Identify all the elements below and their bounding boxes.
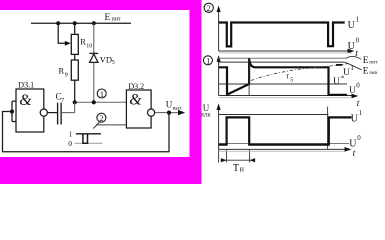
- Tn tick left: [225, 150, 227, 163]
- svg-text:U: U: [203, 103, 210, 113]
- svg-text:E: E: [105, 13, 111, 23]
- svg-text:2: 2: [207, 4, 211, 13]
- magenta frame right strip: [190, 0, 202, 184]
- middle waveform node 1: [219, 58, 347, 95]
- wire R10 to R9: [74, 54, 76, 60]
- middle diagram vertical axis: [218, 59, 220, 96]
- svg-text:2: 2: [99, 114, 103, 123]
- bottom waveform U_blk: [219, 117, 352, 144]
- wire D3.2 output: [155, 112, 179, 114]
- svg-text:1: 1: [350, 64, 354, 72]
- wire R10 wiper branch: [58, 23, 65, 43]
- svg-text:БЛК: БЛК: [201, 114, 211, 119]
- bottom diagram vertical axis: [218, 108, 220, 150]
- svg-text:н: н: [240, 164, 245, 173]
- svg-text:U: U: [343, 68, 350, 78]
- gate D3.1 output bubble: [40, 109, 47, 116]
- E_pit pointer hook: [346, 56, 361, 59]
- Tn arrow left: [221, 158, 227, 162]
- top diagram time axis: [219, 50, 349, 52]
- svg-text:1: 1: [206, 57, 210, 66]
- Tn arrow right: [250, 158, 256, 162]
- svg-text:VD: VD: [100, 55, 112, 65]
- svg-text:5: 5: [290, 78, 293, 84]
- wire trigger input to D3.2: [96, 124, 126, 126]
- svg-text:0: 0: [357, 134, 361, 142]
- node label circled 2: [97, 113, 106, 122]
- output arrowhead: [178, 110, 185, 115]
- U* threshold line: [219, 83, 347, 85]
- U1 reference line (bottom): [219, 114, 329, 116]
- svg-text:E: E: [363, 67, 369, 77]
- junction dot D3.1 input: [10, 109, 14, 113]
- svg-text:&: &: [19, 92, 32, 109]
- E_pit level line: [219, 57, 346, 59]
- U0 reference line (bottom): [219, 143, 349, 145]
- svg-text:t: t: [357, 99, 360, 109]
- diagram label circled 1 (middle): [203, 56, 212, 65]
- svg-text:U: U: [349, 138, 357, 149]
- svg-text:U: U: [349, 86, 356, 96]
- wire D3.1 output to C7: [47, 112, 57, 114]
- trigger waveform 0-level line: [74, 142, 102, 144]
- E_ekv level line: [219, 61, 344, 63]
- junction dot output: [167, 111, 171, 115]
- svg-text:0: 0: [68, 139, 72, 148]
- Tn tick right: [249, 150, 251, 163]
- gate D3.2 body: [126, 90, 151, 128]
- wire C7 to node 1: [61, 102, 75, 112]
- wire input tie: [11, 101, 13, 121]
- diode VD5 cathode bar: [89, 52, 98, 54]
- svg-text:D3.1: D3.1: [18, 81, 34, 90]
- svg-text:U: U: [351, 113, 359, 124]
- E_ekv pointer hook: [344, 62, 362, 70]
- guide line t3 (bottom): [327, 107, 329, 150]
- power rail E_pit: [31, 22, 131, 24]
- svg-text:U: U: [348, 20, 356, 31]
- node label circled 1: [97, 89, 106, 98]
- trigger waveform 1-level line: [76, 133, 101, 135]
- wire R9 to node 1: [74, 80, 76, 102]
- trigger waveform pulse: [83, 134, 88, 143]
- bottom diagram time axis: [219, 148, 346, 150]
- Tn dimension line: [221, 159, 254, 161]
- feedback wire output to D3.1 input: [3, 112, 170, 152]
- guide line t2 (middle): [248, 59, 250, 96]
- svg-text:U: U: [333, 77, 340, 87]
- svg-text:10: 10: [86, 44, 92, 50]
- magenta frame bottom band: [0, 157, 190, 184]
- svg-text:экв: экв: [369, 70, 377, 76]
- magenta frame top band: [0, 0, 202, 10]
- axis shadow lines (scan artifact): [219, 52, 352, 54]
- top diagram vertical axis: [218, 10, 220, 51]
- node dot rail-R10: [73, 21, 77, 25]
- svg-text:U: U: [348, 41, 356, 52]
- diode VD5 triangle: [90, 54, 98, 62]
- svg-text:9: 9: [65, 73, 68, 79]
- node dot rail-R10wiper: [56, 21, 60, 25]
- diagram label circled 2 (top): [204, 3, 213, 12]
- svg-text:E: E: [363, 56, 369, 66]
- axis extension tick below origin: [218, 149, 220, 162]
- svg-text:вых: вых: [173, 106, 182, 112]
- wire VD5 to node 1: [93, 63, 95, 103]
- capacitor C7 plates: [58, 103, 62, 125]
- wiper arrowhead: [65, 41, 71, 46]
- svg-text:1: 1: [69, 129, 73, 138]
- junction dot node1-VD5: [92, 100, 96, 104]
- U1 level dash (middle): [336, 64, 342, 66]
- svg-text:Т: Т: [233, 163, 239, 174]
- resistor R10: [71, 34, 78, 54]
- wire rail to R10 top: [74, 23, 76, 34]
- node dot rail-VD5: [92, 21, 96, 25]
- gate D3.1 body: [16, 89, 44, 132]
- exponential asymptote dash-dot curve: [251, 63, 349, 80]
- svg-text:1: 1: [356, 15, 360, 23]
- svg-text:1: 1: [100, 90, 104, 99]
- node 1 wire to D3.2 input: [75, 101, 127, 103]
- top waveform U2: [219, 23, 345, 47]
- svg-text:0: 0: [356, 36, 360, 44]
- svg-text:пит: пит: [112, 17, 121, 23]
- gate D3.1 input stub top: [12, 100, 16, 102]
- middle diagram time axis: [219, 95, 352, 97]
- wire rail to VD5: [93, 23, 95, 53]
- gate D3.2 output bubble: [148, 109, 155, 116]
- svg-text:t: t: [353, 149, 356, 159]
- svg-text:R: R: [59, 66, 65, 76]
- svg-text:&: &: [129, 91, 142, 108]
- svg-text:5: 5: [112, 60, 115, 66]
- gate D3.1 input stub bottom: [12, 121, 16, 123]
- svg-text:1: 1: [359, 109, 363, 117]
- svg-text:пит: пит: [369, 60, 378, 66]
- svg-text:U: U: [166, 100, 173, 110]
- trigger connection tick: [93, 122, 99, 128]
- svg-text:0: 0: [356, 81, 360, 89]
- resistor R9: [71, 60, 78, 80]
- junction dot node1-R9: [73, 100, 77, 104]
